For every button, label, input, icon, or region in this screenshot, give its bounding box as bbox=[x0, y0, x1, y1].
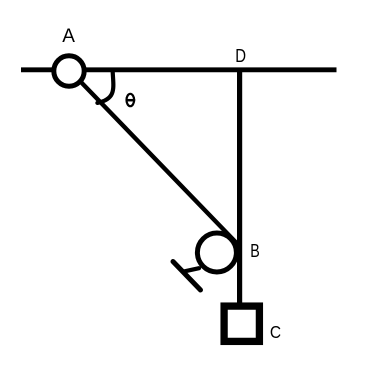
pulley B bbox=[197, 233, 236, 272]
angle arc bbox=[97, 72, 113, 103]
label theta oval bbox=[127, 94, 135, 106]
rope A to B bbox=[79, 80, 239, 246]
pulley A bbox=[54, 56, 84, 86]
block C bbox=[224, 306, 259, 341]
svg-text:A: A bbox=[62, 26, 75, 47]
svg-text:D: D bbox=[235, 46, 246, 66]
vertical rope D to C bbox=[237, 68, 242, 303]
anchor bar at B bbox=[173, 262, 201, 291]
label theta bar bbox=[126, 99, 136, 102]
svg-text:B: B bbox=[250, 240, 260, 261]
svg-text:C: C bbox=[270, 322, 281, 342]
anchor link at B bbox=[184, 268, 200, 271]
ceiling line bbox=[21, 67, 337, 72]
